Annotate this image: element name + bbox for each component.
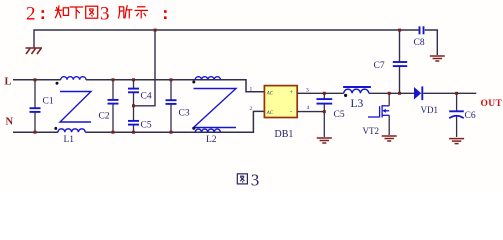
svg-text:L1: L1 [64,135,75,145]
junction dots (red) [34,29,459,134]
svg-text:DB1: DB1 [275,129,294,140]
svg-text:C3: C3 [179,109,190,119]
svg-text:3: 3 [251,171,259,190]
wire: output node [423,92,476,94]
capacitor C2 [99,80,119,132]
svg-text:C5: C5 [334,110,345,120]
svg-text:L3: L3 [351,98,364,110]
svg-text:VT2: VT2 [363,126,380,136]
capacitor C7 [393,62,407,66]
svg-text:L: L [5,77,12,88]
wire: top rail [13,80,264,92]
svg-text:C2: C2 [99,112,110,122]
glyph 示 [135,7,149,19]
svg-text:2: 2 [26,4,36,25]
transistor VT2 (MOSFET) [363,93,390,136]
svg-text:C5: C5 [141,121,152,131]
svg-text:VD1: VD1 [421,105,439,115]
svg-text:C7: C7 [374,61,385,71]
wire: bridge + output [297,92,344,94]
svg-text:+: + [290,89,294,96]
wire: node after L3 [369,92,414,94]
capacitor C5 (lower of pair) [128,106,152,132]
wire: bottom rail [13,111,264,132]
capacitor C5 (bulk, after bridge) [317,93,345,137]
ground (under C8) [430,56,445,61]
svg-text:2: 2 [250,106,253,112]
glyph 下 [70,7,84,19]
svg-text:C1: C1 [43,97,54,107]
figure caption: 图 3 [237,174,247,184]
svg-text:4: 4 [307,105,310,111]
svg-text:OUT: OUT [481,99,503,109]
svg-text:AC: AC [266,91,274,96]
capacitor C8 [420,26,424,34]
wire: bridge - output [297,111,324,113]
svg-text:-: - [290,109,292,116]
chassis ground (top-left) [26,48,43,54]
ground (under C5) [317,138,332,143]
ground (under C6) [449,139,464,144]
ground (under VT2) [382,136,397,141]
top earth wire [34,30,437,106]
svg-text:AC: AC [266,111,274,116]
svg-text:3: 3 [306,88,309,94]
svg-text:1: 1 [250,87,253,93]
svg-text:C6: C6 [465,111,476,121]
glyph 图 [86,6,98,18]
title text: 2：如下图3 所示： [26,4,44,25]
glyph 如 [55,5,69,18]
svg-text:N: N [6,117,14,128]
svg-text:L2: L2 [206,135,217,145]
bridge rectifier DB1 [264,86,297,140]
choke L2 [194,77,237,133]
capacitor C6 (electrolytic) [449,93,476,137]
svg-text:3: 3 [100,4,110,25]
svg-text:C8: C8 [414,38,425,48]
inductor L3 [343,87,371,93]
choke L1 [58,77,91,133]
capacitor C3 [166,80,190,132]
capacitor C1 [30,80,54,132]
glyph 所 [118,5,132,18]
svg-text:C4: C4 [141,92,152,102]
diode VD1 [414,86,438,115]
capacitor C4 [128,80,152,106]
